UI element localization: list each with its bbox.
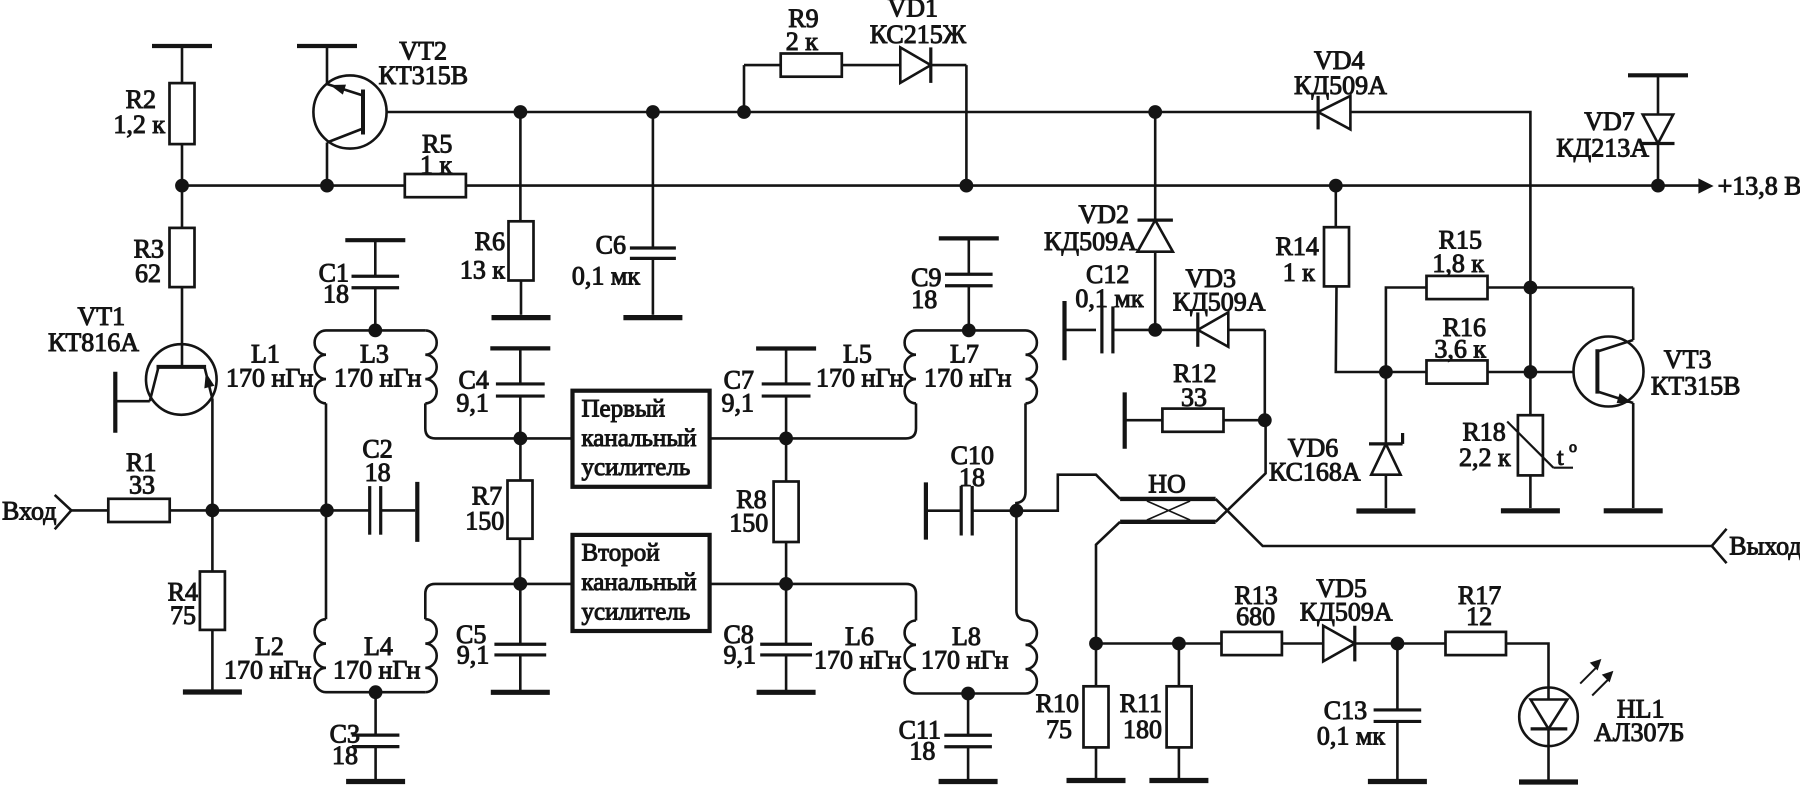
svg-text:R11: R11 [1120,689,1162,718]
ground [1368,779,1427,784]
wire [520,281,523,315]
node C10/coupler junction [1010,504,1024,518]
terminal bar (top of VD7) [1628,73,1688,77]
capacitor C11 [899,694,992,766]
svg-text:170 нГн: 170 нГн [334,364,421,393]
node R14/R15/R16/VD6 junction [1379,365,1393,379]
transistor VT2 [313,37,468,149]
node R14 rail junction [1329,179,1343,193]
capacitor C13 [1317,644,1421,751]
svg-text:КД213А: КД213А [1556,134,1649,163]
inductor L5 [816,330,916,403]
wire coil top link [916,329,1026,332]
wire [425,403,520,438]
wire [1228,329,1265,332]
wire [520,111,653,114]
wire [1488,371,1531,374]
wire [181,186,184,228]
wire [1547,746,1550,780]
node L2/L4 bottom junction [369,685,383,699]
wire [1065,329,1097,332]
wire [710,583,787,586]
wire [519,396,522,438]
wire [1335,186,1338,228]
svg-text:t: t [1557,445,1564,471]
wire [181,144,184,186]
capacitor C9 [911,238,999,314]
svg-text:Выход: Выход [1729,532,1800,561]
ground [1519,779,1578,784]
node C4/R7 junction [514,432,528,446]
wire [652,112,655,248]
inductor L3 [334,330,437,403]
ground [1604,508,1663,513]
node VD2 branch junction [1148,105,1162,119]
resistor R14 [1276,227,1349,287]
svg-text:12: 12 [1466,602,1492,631]
node R2/R3 junction [175,179,189,193]
resistor R5 [405,130,466,198]
wire [973,509,1016,512]
capacitor C7 [722,365,811,417]
wire [1397,642,1445,645]
svg-text:18: 18 [959,463,985,492]
diode VD7 КД213А [1556,107,1674,163]
resistor R4 [168,572,225,631]
wire [1632,403,1635,508]
zener VD6 КС168А [1269,372,1403,486]
svg-text:170 нГн: 170 нГн [224,656,311,685]
wire [170,509,370,512]
svg-text:13 к: 13 к [460,256,506,285]
node R8/C8 junction [779,577,793,591]
svg-text:КД509А: КД509А [1044,227,1137,256]
wire [1096,642,1179,645]
wire [931,64,967,67]
wire [519,438,522,480]
coupler HO lower line [1120,520,1216,524]
ground [346,779,405,784]
wire [519,348,522,384]
svg-text:18: 18 [365,458,391,487]
coupler HO upper line [1120,497,1216,501]
svg-text:R14: R14 [1276,232,1319,261]
wire VT2 base line [387,111,521,114]
inductor L7 [924,330,1037,403]
svg-text:170 нГн: 170 нГн [333,656,420,685]
svg-text:VD2: VD2 [1078,200,1129,229]
wire [115,400,150,403]
svg-text:180: 180 [1123,715,1162,744]
resistor R17 [1446,581,1507,655]
wire [1224,419,1265,422]
inductor L1 [226,330,326,403]
svg-text:170 нГн: 170 нГн [816,364,903,393]
terminal bar (C2) [415,482,419,542]
ground [1149,778,1208,783]
wire +13.8V rail [466,184,1699,187]
svg-text:R6: R6 [475,227,505,256]
diode VD4 КД509А [1294,46,1387,129]
wire [1179,642,1222,645]
node VD7 rail junction [1651,179,1665,193]
node L5/L7 top junction [962,324,976,338]
ground [1067,778,1126,783]
capacitor C10 [951,441,994,536]
resistor R13 [1222,581,1282,655]
wire [374,288,377,331]
svg-text:2,2 к: 2,2 к [1459,443,1511,472]
svg-text:18: 18 [909,736,935,765]
resistor R10 [1036,686,1109,747]
node L1/L3 top junction [368,324,382,338]
wire [1386,371,1427,374]
inductor L6 [814,621,916,694]
ground [492,315,551,320]
wire [1096,522,1120,644]
svg-text:9,1: 9,1 [457,641,490,670]
transistor VT3 [1574,337,1741,407]
resistor R15 [1427,226,1488,300]
capacitor C8 [723,584,812,670]
ground [183,689,242,694]
wire [1216,420,1266,522]
svg-text:канальный: канальный [582,425,697,452]
svg-text:62: 62 [135,259,161,288]
capacitor C5 [456,584,546,670]
wire [744,64,781,67]
diode VD3 КД509А [1173,264,1266,347]
wire [1529,475,1532,508]
wire [842,64,901,67]
svg-text:КД509А: КД509А [1173,288,1266,317]
capacitor C3 [330,692,400,770]
svg-text:170 нГн: 170 нГн [226,364,313,393]
wire [785,542,788,584]
wire [325,510,328,619]
terminal bar (C12) [1062,301,1066,360]
node L6/L8 bottom junction [961,687,975,701]
wire [381,509,416,512]
resistor R11 [1120,686,1192,747]
svg-text:Второй: Второй [582,540,660,567]
svg-text:АЛ307Б: АЛ307Б [1594,718,1684,747]
terminal bar (top of R2) [152,44,212,48]
output terminal Выход [1712,529,1800,563]
node R7/C5 junction [513,577,527,591]
resistor R1 [108,448,169,522]
wire [710,437,906,440]
wire [1178,747,1181,778]
wire [967,286,970,331]
wire [1336,286,1386,372]
input terminal Вход [2,495,71,529]
diode VD5 КД509А [1300,574,1393,661]
node VT1 emitter junction [206,504,220,518]
svg-text:0,1 мк: 0,1 мк [1317,722,1385,751]
node R10 junction [1089,637,1103,651]
svg-text:КТ315В: КТ315В [1651,372,1741,401]
svg-text:1,8 к: 1,8 к [1432,249,1484,278]
node L1/L2 junction [320,504,334,518]
resistor R9 [781,4,842,77]
ground [491,690,550,695]
wire [1385,475,1388,508]
ground [757,690,816,695]
wire R18 branch [1529,288,1532,416]
wire [906,403,916,438]
resistor R12 [1162,359,1223,432]
svg-text:150: 150 [465,506,504,535]
svg-text:9,1: 9,1 [456,388,489,417]
wire [520,437,572,440]
block Второй канальный усилитель [573,535,710,631]
wire [211,399,214,510]
svg-text:усилитель: усилитель [582,454,691,481]
terminal bar (R12) [1123,392,1127,448]
svg-text:Первый: Первый [582,395,666,422]
svg-text:C6: C6 [596,231,626,260]
inductor L8 [921,621,1037,694]
svg-text:КД509А: КД509А [1294,71,1387,100]
wire [653,111,744,114]
wire [1095,644,1098,687]
svg-text:КТ816А: КТ816А [48,328,139,357]
resistor R6 [460,221,534,284]
terminal bar (top of VT2) [297,44,357,48]
diode VD2 КД509А [1044,200,1173,256]
wire [519,655,522,690]
diode VD1 КС215Ж [870,0,967,83]
svg-text:75: 75 [1046,715,1072,744]
wire [1264,330,1267,420]
wire [181,287,184,367]
svg-text:Вход: Вход [2,497,57,526]
wire [1530,371,1573,374]
svg-text:9,1: 9,1 [722,388,755,417]
svg-text:КС168А: КС168А [1269,457,1361,486]
svg-text:VT1: VT1 [78,302,126,331]
svg-text:1,2 к: 1,2 к [113,110,165,139]
wire [1657,75,1660,114]
ground [1501,508,1560,513]
svg-text:КС215Ж: КС215Ж [870,20,967,49]
wire [785,438,788,481]
svg-text:0,1 мк: 0,1 мк [1075,284,1143,313]
terminal bar (VT1 collector) [113,372,117,433]
wire [1125,419,1163,422]
wire [181,46,184,83]
svg-text:усилитель: усилитель [582,598,691,625]
supply +13,8 В [1699,171,1800,200]
wire [965,65,968,186]
wire [916,692,1026,695]
capacitor C4 [456,365,544,417]
node C13 junction [1391,637,1405,651]
wire [926,509,961,512]
node C6 top junction [646,105,660,119]
svg-text:КД509А: КД509А [1300,598,1393,627]
wire [1386,288,1427,373]
LED HL1 АЛ307Б [1519,660,1684,748]
wire [785,396,788,438]
node VT2 collector junction [320,179,334,193]
node C12/VD3 junction [1148,323,1162,337]
wire [1154,252,1157,330]
wire [785,655,788,690]
wire [1355,642,1398,645]
wire [1350,112,1530,288]
node R15/collector junction [1524,281,1538,295]
wire [425,584,520,619]
wire [1506,644,1549,688]
wire [1016,403,1025,510]
svg-text:170 нГн: 170 нГн [814,646,901,675]
capacitor C6 [572,231,676,291]
svg-text:канальный: канальный [582,569,697,596]
svg-text:680: 680 [1236,602,1275,631]
svg-text:18: 18 [323,280,349,309]
wire [1396,721,1399,779]
wire [1530,286,1633,289]
wire [1632,288,1635,341]
ground [1356,508,1415,513]
svg-text:18: 18 [332,741,358,770]
node VT3 base junction [1524,365,1538,379]
inductor L2 [224,619,326,692]
wire [326,46,329,84]
wire [786,584,916,621]
node R9 branch junction [737,105,751,119]
svg-text:150: 150 [729,508,768,537]
svg-text:3,6 к: 3,6 к [1434,335,1486,364]
wire [326,691,425,694]
svg-text:1 к: 1 к [420,150,453,179]
wire coil top link [326,329,425,332]
wire [1155,329,1198,332]
wire [1016,475,1120,511]
svg-text:+13,8 В: +13,8 В [1718,171,1800,200]
resistor R8 [729,482,798,543]
wire [652,258,655,315]
wire [1155,111,1318,114]
wire [1216,499,1712,546]
svg-text:0,1 мк: 0,1 мк [572,261,640,290]
svg-text:R10: R10 [1036,689,1079,718]
wire [1154,112,1157,220]
wire [71,509,108,512]
terminal bar (above C7) [756,346,816,350]
terminal bar (above C4) [490,346,550,350]
coupler cross [1147,501,1190,520]
wire [1178,644,1181,687]
svg-text:75: 75 [170,601,196,630]
ground [623,315,682,320]
wire [785,349,788,384]
capacitor C12 [1075,260,1143,353]
svg-text:33: 33 [129,471,155,500]
node C7/R8 junction [779,432,793,446]
resistor R3 [134,228,195,288]
wire [326,143,329,186]
node R12/coupler junction [1258,413,1272,427]
svg-text:1 к: 1 к [1283,258,1316,287]
capacitor C1 [319,240,406,308]
resistor R7 [465,481,532,539]
ground [939,779,998,784]
resistor R2 [113,83,194,144]
svg-text:o: o [1569,439,1577,456]
wire +13.8V rail left [182,184,405,187]
wire [744,111,1155,114]
svg-text:КТ315В: КТ315В [379,61,469,90]
thermistor R18 [1459,415,1577,475]
wire [1016,511,1025,621]
wire [211,510,214,571]
wire [1657,144,1660,186]
wire [519,112,522,221]
inductor L4 [333,619,437,692]
svg-text:170 нГн: 170 нГн [924,364,1011,393]
wire [520,583,572,586]
wire [1282,642,1323,645]
node VD1 rail junction [960,179,974,193]
capacitor C2 [362,435,392,535]
node R11 junction [1172,637,1186,651]
node R6 top junction [514,105,528,119]
wire [743,65,746,112]
wire [325,403,328,510]
block Первый канальный усилитель [573,391,710,487]
terminal bar (C10) [924,482,928,539]
wire [374,747,377,779]
wire [1488,286,1531,289]
svg-text:НО: НО [1148,470,1186,499]
resistor R16 [1427,313,1488,384]
wire [519,539,522,584]
svg-text:VD7: VD7 [1584,107,1635,136]
svg-text:18: 18 [911,285,937,314]
svg-text:170 нГн: 170 нГн [921,646,1008,675]
svg-text:9,1: 9,1 [724,641,757,670]
wire [967,747,970,779]
svg-text:2 к: 2 к [786,27,819,56]
transistor VT1 [48,302,217,415]
wire [211,630,214,690]
svg-text:33: 33 [1181,383,1207,412]
svg-text:VT3: VT3 [1664,345,1712,374]
wire [1095,747,1098,778]
wire [1113,329,1155,332]
